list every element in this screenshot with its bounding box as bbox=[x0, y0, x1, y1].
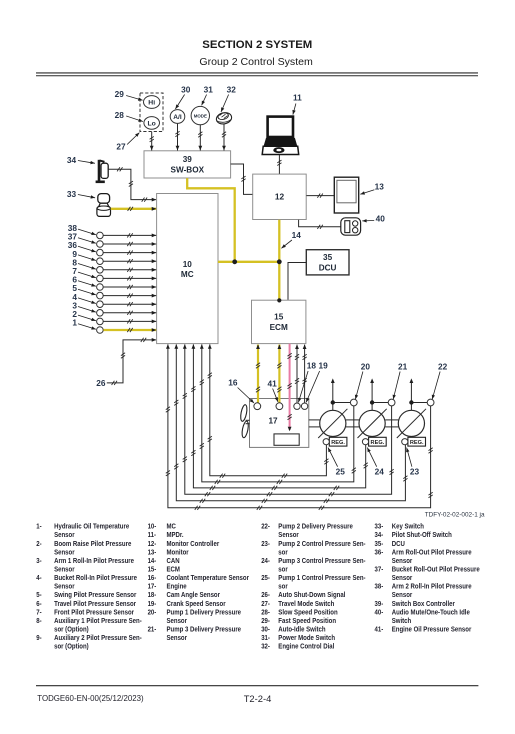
header double rule bbox=[36, 72, 478, 74]
svg-text:22: 22 bbox=[438, 362, 448, 372]
pilot/temperature sensor 6 bbox=[97, 284, 104, 291]
svg-text:Auxiliary 1 Pilot Pressure Sen: Auxiliary 1 Pilot Pressure Sen- bbox=[54, 618, 142, 626]
regulator REG pump 3 bbox=[408, 437, 426, 446]
svg-text:15: 15 bbox=[274, 313, 284, 322]
svg-text:23-: 23- bbox=[261, 540, 270, 548]
CAN junction node A bbox=[232, 259, 237, 264]
pump control pressure sensor 24 bbox=[362, 439, 368, 445]
audio mute/one-touch idle switch 40 bbox=[341, 218, 361, 235]
pilot/temperature sensor 7 bbox=[97, 275, 104, 282]
svg-text:Lo: Lo bbox=[148, 121, 156, 128]
svg-text:Sensor: Sensor bbox=[392, 575, 413, 583]
svg-text:11: 11 bbox=[293, 93, 302, 103]
wire sensor 4 to MC bbox=[103, 303, 156, 305]
svg-text:sor: sor bbox=[278, 583, 288, 591]
wire dial 32 to SW-BOX bbox=[223, 124, 225, 150]
svg-text:38-: 38- bbox=[374, 583, 383, 591]
svg-text:25: 25 bbox=[336, 467, 346, 477]
drive shaft engine-pumps (double lines) bbox=[309, 419, 320, 421]
svg-text:MC: MC bbox=[166, 523, 176, 531]
svg-text:33: 33 bbox=[67, 189, 77, 199]
svg-text:Power Mode Switch: Power Mode Switch bbox=[278, 635, 335, 643]
svg-text:Monitor: Monitor bbox=[166, 549, 188, 557]
wire sensor 36 to MC bbox=[103, 252, 156, 254]
svg-text:Engine Oil Pressure Sensor: Engine Oil Pressure Sensor bbox=[392, 626, 472, 634]
wire ECM to oil pressure sensor 41 (yellow) bbox=[278, 345, 280, 403]
svg-text:26-: 26- bbox=[261, 592, 270, 600]
slow speed position 28 (Lo) bbox=[144, 117, 160, 130]
CAN bus 14 yellow: MC to ECM trunk bbox=[218, 261, 279, 263]
pilot/temperature sensor 9 bbox=[97, 258, 104, 265]
svg-text:Engine Control Dial: Engine Control Dial bbox=[278, 643, 334, 651]
engine cooling fan bbox=[240, 404, 250, 438]
svg-text:Arm Roll-Out Pilot Pressure: Arm Roll-Out Pilot Pressure bbox=[392, 549, 472, 557]
wire DCU to ECM bbox=[288, 263, 306, 300]
svg-text:Front Pilot Pressure Sensor: Front Pilot Pressure Sensor bbox=[54, 609, 134, 617]
svg-text:28-: 28- bbox=[261, 609, 270, 617]
wire bus MC to sensor 21 bbox=[185, 344, 392, 494]
svg-text:REG.: REG. bbox=[331, 440, 345, 446]
pilot/temperature sensor 37 bbox=[97, 241, 104, 248]
pump 3 bbox=[398, 410, 424, 436]
wire sensor 2 to MC bbox=[103, 320, 156, 322]
svg-text:MC: MC bbox=[181, 270, 194, 279]
svg-text:Boom Raise Pilot Pressure: Boom Raise Pilot Pressure bbox=[54, 540, 131, 548]
svg-text:Group 2 Control System: Group 2 Control System bbox=[199, 57, 313, 68]
svg-text:Engine: Engine bbox=[166, 583, 186, 591]
svg-text:40-: 40- bbox=[374, 609, 383, 617]
wire sensor 37 to MC bbox=[103, 243, 156, 245]
svg-text:1: 1 bbox=[72, 318, 77, 328]
svg-text:1-: 1- bbox=[36, 523, 41, 531]
svg-text:3-: 3- bbox=[36, 557, 41, 565]
engine U17 bbox=[250, 399, 309, 448]
wire sensor 8 to MC bbox=[103, 269, 156, 271]
wire sensor 3 to MC bbox=[103, 312, 156, 314]
svg-text:Bucket Roll-Out Pilot Pressure: Bucket Roll-Out Pilot Pressure bbox=[392, 566, 480, 574]
svg-text:27-: 27- bbox=[261, 600, 270, 608]
svg-text:Hi: Hi bbox=[148, 100, 155, 107]
svg-text:26: 26 bbox=[96, 378, 106, 388]
svg-text:34: 34 bbox=[67, 155, 77, 165]
svg-text:Crank Speed Sensor: Crank Speed Sensor bbox=[166, 600, 225, 608]
pilot/temperature sensor 3 bbox=[97, 310, 104, 317]
svg-text:Switch Box Controller: Switch Box Controller bbox=[392, 600, 455, 608]
svg-text:13-: 13- bbox=[148, 549, 157, 557]
svg-text:Arm 1 Roll-In Pilot Pressure: Arm 1 Roll-In Pilot Pressure bbox=[54, 557, 134, 565]
svg-text:Sensor: Sensor bbox=[166, 618, 187, 626]
svg-text:34-: 34- bbox=[374, 532, 383, 540]
svg-text:Pilot Shut-Off Switch: Pilot Shut-Off Switch bbox=[392, 532, 452, 540]
wire 34 to MC bbox=[108, 169, 156, 199]
svg-text:MODE: MODE bbox=[194, 114, 207, 119]
pilot shut-off switch 34 bbox=[96, 160, 109, 182]
svg-text:18-: 18- bbox=[148, 592, 157, 600]
svg-text:Sensor: Sensor bbox=[54, 532, 75, 540]
svg-text:DCU: DCU bbox=[392, 540, 405, 548]
wire 33 to MC (yellow) bbox=[111, 208, 157, 210]
svg-text:MPDr.: MPDr. bbox=[166, 532, 183, 540]
travel mode switch 27 (dashed enclosure) bbox=[140, 93, 163, 132]
monitor 13 bbox=[334, 177, 358, 213]
svg-text:30: 30 bbox=[181, 85, 191, 95]
svg-text:19-: 19- bbox=[148, 600, 157, 608]
fast speed position 29 (Hi) bbox=[144, 96, 160, 109]
svg-text:A/I: A/I bbox=[173, 114, 182, 121]
svg-text:Sensor: Sensor bbox=[54, 566, 75, 574]
svg-text:31: 31 bbox=[204, 85, 214, 95]
wire bus MC to sensor 23 bbox=[176, 344, 405, 500]
pilot/temperature sensor 1 bbox=[97, 327, 104, 334]
wire 26 to MC bbox=[107, 340, 156, 383]
svg-text:14: 14 bbox=[292, 230, 302, 240]
svg-text:Sensor: Sensor bbox=[54, 549, 75, 557]
svg-text:13: 13 bbox=[375, 182, 385, 192]
svg-text:Bucket Roll-In Pilot Pressure: Bucket Roll-In Pilot Pressure bbox=[54, 575, 137, 583]
svg-text:sor (Option): sor (Option) bbox=[54, 626, 89, 634]
svg-text:Pump 2 Control Pressure Sen-: Pump 2 Control Pressure Sen- bbox=[278, 540, 365, 548]
svg-text:23: 23 bbox=[410, 467, 420, 477]
svg-text:Sensor: Sensor bbox=[392, 557, 413, 565]
svg-text:30-: 30- bbox=[261, 626, 270, 634]
svg-text:12-: 12- bbox=[148, 540, 157, 548]
delivery line node pump 3 bbox=[410, 403, 412, 411]
svg-text:16: 16 bbox=[228, 378, 238, 388]
svg-text:Fast Speed Position: Fast Speed Position bbox=[278, 618, 336, 626]
svg-text:40: 40 bbox=[376, 214, 386, 224]
regulator REG pump 1 bbox=[329, 437, 347, 446]
svg-text:18: 18 bbox=[307, 361, 317, 371]
pump 2 bbox=[359, 410, 385, 436]
svg-text:39-: 39- bbox=[374, 600, 383, 608]
svg-text:REG.: REG. bbox=[410, 440, 424, 446]
crank speed sensor 19 bbox=[301, 403, 307, 409]
pilot/temperature sensor 38 bbox=[97, 232, 104, 239]
engine oil pressure sensor 41 bbox=[276, 403, 283, 410]
svg-text:21: 21 bbox=[398, 362, 408, 372]
svg-text:21-: 21- bbox=[148, 626, 157, 634]
svg-text:9-: 9- bbox=[36, 635, 41, 643]
svg-text:Swing Pilot Pressure Sensor: Swing Pilot Pressure Sensor bbox=[54, 592, 137, 600]
CAN bus 14 yellow: SW-BOX branch bbox=[187, 178, 235, 262]
wire 12 to monitor 13 bbox=[306, 195, 334, 197]
svg-text:Pump 1 Delivery Pressure: Pump 1 Delivery Pressure bbox=[166, 609, 241, 617]
svg-text:20-: 20- bbox=[148, 609, 157, 617]
svg-text:2-: 2- bbox=[36, 540, 41, 548]
wire MODE to SW-BOX bbox=[199, 125, 201, 151]
wire ECM to cam angle sensor 18 bbox=[296, 345, 298, 404]
svg-text:27: 27 bbox=[116, 142, 126, 152]
auto-idle switch 30 (A/I) bbox=[170, 110, 185, 124]
svg-text:39: 39 bbox=[183, 155, 193, 164]
svg-text:Arm 2 Roll-In Pilot Pressure: Arm 2 Roll-In Pilot Pressure bbox=[392, 583, 472, 591]
svg-text:Cam Angle Sensor: Cam Angle Sensor bbox=[166, 592, 220, 600]
svg-text:Sensor: Sensor bbox=[392, 592, 413, 600]
svg-text:sor: sor bbox=[278, 566, 288, 574]
svg-text:6-: 6- bbox=[36, 600, 41, 608]
svg-text:8-: 8- bbox=[36, 618, 41, 626]
svg-text:Pump 3 Delivery Pressure: Pump 3 Delivery Pressure bbox=[166, 626, 241, 634]
svg-text:20: 20 bbox=[361, 362, 371, 372]
svg-text:24-: 24- bbox=[261, 557, 270, 565]
svg-text:32-: 32- bbox=[261, 643, 270, 651]
wire sensor 1 to MC bbox=[103, 329, 156, 331]
svg-text:Switch: Switch bbox=[392, 618, 411, 626]
footer rule bbox=[36, 685, 478, 687]
svg-text:DCU: DCU bbox=[319, 264, 337, 273]
svg-text:10-: 10- bbox=[148, 523, 157, 531]
svg-text:19: 19 bbox=[318, 361, 328, 371]
engine muffler block bbox=[274, 434, 299, 445]
svg-text:Auxiliary 2 Pilot Pressure Sen: Auxiliary 2 Pilot Pressure Sen- bbox=[54, 635, 142, 643]
svg-text:12: 12 bbox=[275, 192, 285, 202]
main controller U10 MC bbox=[157, 194, 218, 344]
pump 1 bbox=[320, 410, 346, 436]
pilot/temperature sensor 8 bbox=[97, 267, 104, 274]
svg-text:29-: 29- bbox=[261, 618, 270, 626]
svg-text:14-: 14- bbox=[148, 557, 157, 565]
wire sensor 38 to MC bbox=[103, 234, 156, 236]
svg-text:28: 28 bbox=[115, 110, 125, 120]
svg-text:15-: 15- bbox=[148, 566, 157, 574]
svg-text:7-: 7- bbox=[36, 609, 41, 617]
svg-text:32: 32 bbox=[227, 85, 237, 95]
key switch 33 bbox=[97, 194, 111, 217]
power mode switch 31 (MODE) bbox=[191, 106, 209, 124]
svg-text:Pump 3 Control Pressure Sen-: Pump 3 Control Pressure Sen- bbox=[278, 557, 365, 565]
pump 2 delivery pressure sensor 21 bbox=[388, 399, 395, 406]
svg-text:Audio Mute/One-Touch Idle: Audio Mute/One-Touch Idle bbox=[392, 609, 470, 617]
wire ECM to crank speed sensor 19 bbox=[304, 345, 306, 404]
svg-text:37-: 37- bbox=[374, 566, 383, 574]
regulator REG pump 2 bbox=[369, 437, 387, 446]
pump control pressure sensor 23 bbox=[402, 439, 408, 445]
svg-text:25-: 25- bbox=[261, 575, 270, 583]
legend bbox=[36, 523, 480, 651]
pilot/temperature sensor 5 bbox=[97, 292, 104, 299]
svg-text:Auto Shut-Down Signal: Auto Shut-Down Signal bbox=[278, 592, 345, 600]
wire ECM into engine (pink) bbox=[289, 344, 291, 430]
engine control dial 32 bbox=[215, 111, 232, 125]
svg-text:SW-BOX: SW-BOX bbox=[171, 165, 205, 174]
svg-text:CAN: CAN bbox=[166, 557, 179, 565]
svg-text:41: 41 bbox=[267, 379, 277, 389]
CAN junction at ECM bbox=[277, 298, 281, 302]
wire SW-BOX to 12 bbox=[231, 164, 253, 194]
svg-text:22-: 22- bbox=[261, 523, 270, 531]
svg-text:35-: 35- bbox=[374, 540, 383, 548]
wire sensor 6 to MC bbox=[103, 286, 156, 288]
CAN junction node B bbox=[277, 259, 282, 264]
pump control pressure sensor 25 bbox=[323, 439, 329, 445]
svg-text:ECM: ECM bbox=[270, 323, 288, 332]
svg-text:17: 17 bbox=[268, 416, 278, 425]
svg-text:35: 35 bbox=[323, 253, 333, 262]
DCU U35 bbox=[306, 250, 349, 275]
service laptop MPDr. 11 bbox=[262, 117, 299, 155]
svg-text:Monitor Controller: Monitor Controller bbox=[166, 540, 219, 548]
svg-text:33-: 33- bbox=[374, 523, 383, 531]
svg-text:T2-2-4: T2-2-4 bbox=[244, 693, 272, 704]
cam angle sensor 18 bbox=[294, 403, 300, 409]
svg-text:Auto-Idle Switch: Auto-Idle Switch bbox=[278, 626, 325, 634]
svg-text:REG.: REG. bbox=[371, 440, 385, 446]
svg-text:Pump 2 Delivery Pressure: Pump 2 Delivery Pressure bbox=[278, 523, 353, 531]
svg-text:SECTION 2 SYSTEM: SECTION 2 SYSTEM bbox=[202, 39, 312, 51]
wire Hi/Lo to SW-BOX bbox=[151, 132, 153, 151]
svg-text:24: 24 bbox=[375, 467, 385, 477]
svg-text:TODGE60-EN-00(25/12/2023): TODGE60-EN-00(25/12/2023) bbox=[37, 694, 144, 703]
svg-text:Travel Mode Switch: Travel Mode Switch bbox=[278, 600, 334, 608]
svg-text:Sensor: Sensor bbox=[166, 635, 187, 643]
svg-text:sor: sor bbox=[278, 549, 288, 557]
svg-text:16-: 16- bbox=[148, 575, 157, 583]
svg-text:36-: 36- bbox=[374, 549, 383, 557]
svg-text:5-: 5- bbox=[36, 592, 41, 600]
svg-text:ECM: ECM bbox=[166, 566, 180, 574]
svg-text:sor (Option): sor (Option) bbox=[54, 643, 89, 651]
pump 3 delivery pressure sensor 22 bbox=[427, 399, 434, 406]
wire ECM to coolant temp sensor 16 (yellow) bbox=[257, 345, 259, 403]
svg-text:41-: 41- bbox=[374, 626, 383, 634]
svg-text:Sensor: Sensor bbox=[278, 532, 299, 540]
wire bus MC to sensor 24 bbox=[193, 344, 365, 488]
delivery line node pump 2 bbox=[371, 403, 373, 411]
svg-text:TDFY-02-02-002-1 ja: TDFY-02-02-002-1 ja bbox=[425, 512, 485, 519]
delivery line node pump 1 bbox=[332, 403, 334, 411]
svg-text:Pump 1 Control Pressure Sen-: Pump 1 Control Pressure Sen- bbox=[278, 575, 365, 583]
wire laptop to 12 bbox=[278, 155, 280, 174]
svg-text:Slow Speed Position: Slow Speed Position bbox=[278, 609, 337, 617]
svg-text:17-: 17- bbox=[148, 583, 157, 591]
pilot/temperature sensor 4 bbox=[97, 301, 104, 308]
svg-text:Sensor: Sensor bbox=[54, 583, 75, 591]
monitor controller U12 bbox=[253, 174, 307, 219]
pilot/temperature sensor 2 bbox=[97, 318, 104, 325]
switch box controller U39 SW-BOX bbox=[144, 151, 231, 178]
wire bus MC to sensor 25 bbox=[210, 344, 327, 475]
svg-text:Travel Pilot Pressure Sensor: Travel Pilot Pressure Sensor bbox=[54, 600, 136, 608]
svg-text:Hydraulic Oil Temperature: Hydraulic Oil Temperature bbox=[54, 523, 129, 531]
svg-text:4-: 4- bbox=[36, 575, 41, 583]
pilot/temperature sensor 36 bbox=[97, 249, 104, 256]
wire sensor 7 to MC bbox=[103, 277, 156, 279]
svg-text:Coolant Temperature Sensor: Coolant Temperature Sensor bbox=[166, 575, 249, 583]
wire 12 to switch 40 bbox=[299, 220, 341, 227]
engine control unit U15 ECM bbox=[252, 300, 306, 343]
svg-text:10: 10 bbox=[183, 260, 193, 269]
svg-text:29: 29 bbox=[115, 89, 125, 99]
wire bus MC to sensor 22 bbox=[168, 344, 431, 507]
wire sensor 9 to MC bbox=[103, 260, 156, 262]
svg-text:11-: 11- bbox=[148, 532, 156, 540]
svg-text:31-: 31- bbox=[261, 635, 270, 643]
wire sensor 5 to MC bbox=[103, 295, 156, 297]
coolant temperature sensor 16 bbox=[254, 403, 261, 410]
svg-text:Key Switch: Key Switch bbox=[392, 523, 424, 531]
wire bus MC to sensor 20 bbox=[202, 344, 354, 482]
pump 1 delivery pressure sensor 20 bbox=[350, 399, 357, 406]
wire A/I to SW-BOX bbox=[177, 124, 179, 151]
